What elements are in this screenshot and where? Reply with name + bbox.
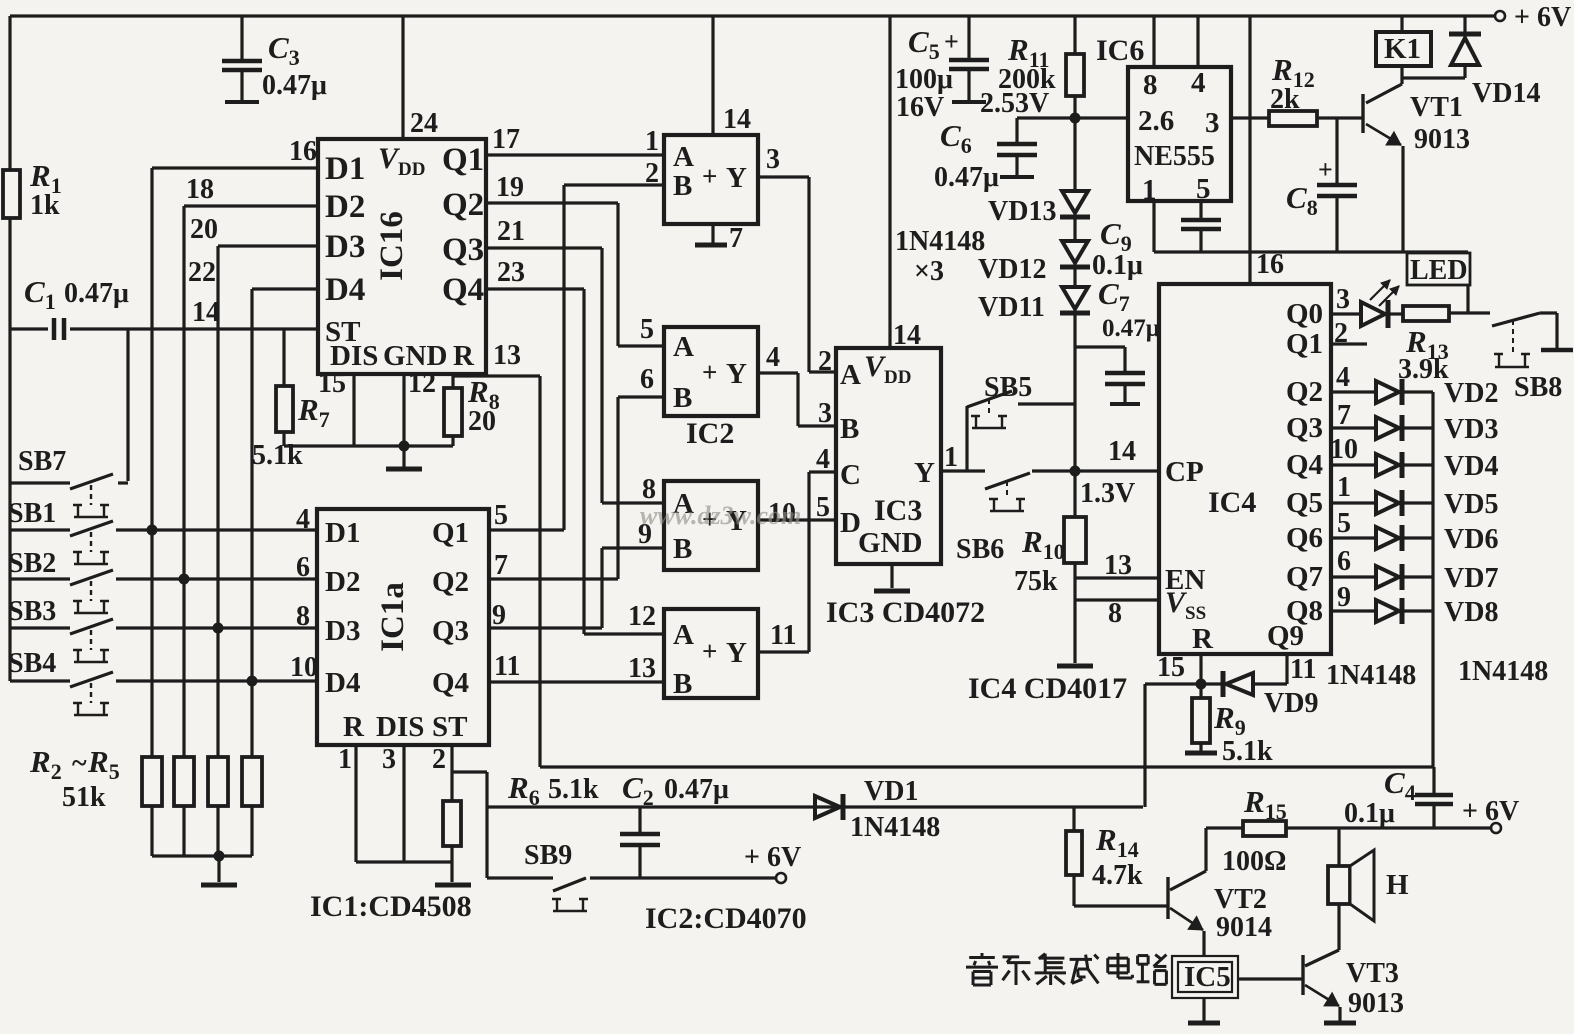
svg-text:1: 1 [944,442,958,473]
svg-text:B: B [673,382,692,414]
svg-text:3: 3 [382,744,396,775]
svg-text:Q4: Q4 [442,272,484,308]
svg-text:VT3: VT3 [1346,958,1399,989]
svg-text:6: 6 [1337,546,1351,577]
svg-text:0.1μ: 0.1μ [1344,798,1395,829]
svg-text:1.3V: 1.3V [1080,478,1135,509]
svg-text:Q1: Q1 [442,142,484,178]
svg-text:B: B [673,668,692,700]
svg-text:ST: ST [432,711,467,743]
svg-text:LED: LED [1410,255,1468,286]
svg-text:9: 9 [492,600,506,631]
svg-text:51k: 51k [62,782,106,813]
svg-text:SB9: SB9 [524,840,572,871]
svg-text:D4: D4 [325,272,365,308]
svg-text:5.1k: 5.1k [548,774,599,805]
svg-text:12: 12 [408,368,436,399]
svg-text:Y: Y [914,457,935,489]
svg-text:VT1: VT1 [1410,92,1463,123]
svg-text:6: 6 [296,552,310,583]
svg-text:1k: 1k [30,190,60,221]
svg-text:Q3: Q3 [432,615,469,647]
svg-text:16: 16 [1256,249,1284,280]
svg-text:0.47μ: 0.47μ [64,278,129,309]
svg-text:14: 14 [192,297,220,328]
svg-text:100μ: 100μ [895,64,953,95]
svg-text:D2: D2 [325,566,360,598]
svg-text:8: 8 [1143,69,1158,101]
svg-text:IC1:CD4508: IC1:CD4508 [310,890,472,923]
svg-text:0.47μ: 0.47μ [262,70,327,101]
svg-text:VD2: VD2 [1444,378,1498,409]
svg-text:VD7: VD7 [1444,563,1498,594]
svg-text:15: 15 [318,368,346,399]
svg-text:7: 7 [1337,400,1351,431]
svg-text:6: 6 [640,364,654,395]
svg-text:Y: Y [726,162,747,194]
svg-text:A: A [673,141,694,173]
svg-text:4.7k: 4.7k [1092,860,1143,891]
svg-text:11: 11 [1290,654,1316,685]
svg-text:3: 3 [1205,107,1220,139]
svg-text:VD4: VD4 [1444,451,1498,482]
svg-text:×3: ×3 [914,256,944,287]
svg-text:GND: GND [858,527,922,559]
svg-text:VD8: VD8 [1444,597,1498,628]
svg-text:D3: D3 [325,229,365,265]
svg-text:8: 8 [296,601,310,632]
svg-text:4: 4 [1191,67,1206,99]
svg-text:SB4: SB4 [8,648,56,679]
svg-text:Q1: Q1 [432,517,469,549]
svg-text:Y: Y [726,637,747,669]
svg-text:10: 10 [290,652,318,683]
svg-text:Q4: Q4 [1286,449,1323,481]
svg-text:B: B [840,413,859,445]
svg-text:A: A [673,331,694,363]
svg-text:4: 4 [296,504,310,535]
svg-text:23: 23 [497,257,525,288]
svg-text:VT2: VT2 [1214,884,1267,915]
svg-text:9: 9 [1337,582,1351,613]
svg-text:R: R [343,711,365,743]
svg-text:1N4148: 1N4148 [850,812,940,843]
svg-text:D1: D1 [325,517,360,549]
svg-text:0.47μ: 0.47μ [664,774,729,805]
svg-text:75k: 75k [1014,566,1058,597]
svg-text:1: 1 [645,126,659,157]
svg-text:+: + [944,27,959,56]
svg-text:13: 13 [493,340,521,371]
svg-text:~: ~ [72,748,87,779]
svg-text:+: + [702,357,717,387]
svg-text:Q1: Q1 [1286,328,1323,360]
svg-text:Q2: Q2 [432,566,469,598]
svg-text:SB8: SB8 [1514,372,1562,403]
svg-text:+: + [702,161,717,191]
svg-text:1: 1 [338,744,352,775]
svg-text:IC1a: IC1a [375,582,411,652]
svg-text:Q2: Q2 [442,187,484,223]
svg-text:12: 12 [628,601,656,632]
svg-text:VD6: VD6 [1444,524,1498,555]
svg-text:200k: 200k [998,64,1056,95]
svg-text:+: + [702,636,717,666]
svg-text:9013: 9013 [1414,124,1470,155]
svg-text:Q9: Q9 [1267,620,1304,652]
svg-text:10: 10 [1330,434,1358,465]
svg-text:1N4148: 1N4148 [1458,656,1548,687]
svg-text:B: B [673,533,692,565]
svg-text:21: 21 [497,216,525,247]
svg-text:CP: CP [1165,456,1204,488]
svg-text:3.9k: 3.9k [1398,354,1449,385]
svg-text:3: 3 [818,398,832,429]
svg-text:100Ω: 100Ω [1222,846,1286,877]
svg-text:D2: D2 [325,189,365,225]
svg-text:IC3 CD4072: IC3 CD4072 [826,596,985,629]
svg-text:VD5: VD5 [1444,489,1498,520]
svg-text:R: R [453,340,475,372]
svg-text:4: 4 [766,342,780,373]
svg-text:14: 14 [893,320,921,351]
svg-text:Q2: Q2 [1286,376,1323,408]
svg-text:11: 11 [770,620,796,651]
svg-text:SB1: SB1 [8,498,56,529]
svg-text:NE555: NE555 [1134,141,1215,172]
svg-text:Q7: Q7 [1286,561,1323,593]
svg-text:16V: 16V [896,92,944,123]
svg-text:VD3: VD3 [1444,414,1498,445]
svg-text:5: 5 [640,314,654,345]
svg-text:IC4: IC4 [1208,486,1256,519]
svg-text:13: 13 [628,653,656,684]
svg-text:2: 2 [645,158,659,189]
svg-text:Q0: Q0 [1286,298,1323,330]
svg-text:IC5: IC5 [1184,961,1231,993]
svg-text:13: 13 [1104,550,1132,581]
svg-text:24: 24 [410,108,438,139]
svg-text:15: 15 [1157,652,1185,683]
svg-text:IC2: IC2 [686,417,734,450]
svg-text:VD9: VD9 [1264,688,1318,719]
svg-text:2: 2 [818,346,832,377]
svg-text:R: R [1192,623,1214,655]
svg-text:SB6: SB6 [956,534,1004,565]
svg-text:1N4148: 1N4148 [895,226,985,257]
svg-text:SB5: SB5 [984,372,1032,403]
svg-text:11: 11 [494,651,520,682]
svg-text:IC3: IC3 [874,494,922,527]
svg-text:5: 5 [494,500,508,531]
svg-text:Q3: Q3 [442,232,484,268]
svg-text:VD1: VD1 [864,776,918,807]
svg-text:www.dz3w.com: www.dz3w.com [640,501,801,530]
svg-text:4: 4 [816,444,830,475]
svg-text:B: B [673,170,692,202]
svg-text:16: 16 [289,136,317,167]
svg-text:A: A [673,619,694,651]
svg-text:20: 20 [468,406,496,437]
svg-text:7: 7 [729,223,743,254]
svg-text:VD11: VD11 [978,292,1045,323]
svg-text:SB2: SB2 [8,548,56,579]
svg-text:Q3: Q3 [1286,412,1323,444]
svg-text:C: C [840,459,861,491]
svg-text:8: 8 [1108,598,1122,629]
svg-text:IC6: IC6 [1096,34,1144,67]
svg-text:2.6: 2.6 [1138,105,1174,137]
svg-text:IC4 CD4017: IC4 CD4017 [968,672,1127,705]
svg-text:14: 14 [723,104,751,135]
svg-text:D4: D4 [325,667,360,699]
svg-text:0.47μ: 0.47μ [934,162,999,193]
svg-text:Q4: Q4 [432,667,469,699]
svg-text:3: 3 [766,144,780,175]
svg-text:+ 6V: + 6V [1514,2,1571,33]
svg-text:7: 7 [494,550,508,581]
svg-text:5.1k: 5.1k [1222,736,1273,767]
svg-text:IC2:CD4070: IC2:CD4070 [645,902,807,935]
svg-text:Q6: Q6 [1286,522,1323,554]
svg-text:VD13: VD13 [988,196,1056,227]
svg-text:D3: D3 [325,615,360,647]
svg-text:H: H [1386,869,1409,901]
svg-text:22: 22 [188,257,216,288]
svg-text:0.47μ: 0.47μ [1102,315,1160,342]
svg-text:9013: 9013 [1348,988,1404,1019]
svg-text:1: 1 [1337,472,1351,503]
svg-text:5: 5 [1337,508,1351,539]
svg-text:17: 17 [492,124,520,155]
svg-text:K1: K1 [1384,33,1421,65]
svg-text:9014: 9014 [1216,912,1272,943]
svg-text:18: 18 [186,174,214,205]
svg-text:19: 19 [496,172,524,203]
svg-text:D1: D1 [325,151,365,187]
svg-text:+ 6V: + 6V [744,842,801,873]
svg-text:SB3: SB3 [8,596,56,627]
svg-text:A: A [840,359,861,391]
svg-text:Q5: Q5 [1286,487,1323,519]
svg-text:DIS: DIS [376,711,424,743]
svg-text:2k: 2k [1270,84,1300,115]
svg-text:14: 14 [1108,436,1136,467]
svg-text:2: 2 [432,744,446,775]
svg-text:+: + [1318,155,1333,184]
svg-text:VD12: VD12 [978,254,1046,285]
svg-text:SB7: SB7 [18,446,66,477]
svg-text:3: 3 [1336,284,1350,315]
svg-text:5: 5 [1196,173,1211,205]
svg-text:1N4148: 1N4148 [1326,660,1416,691]
svg-text:IC16: IC16 [374,211,410,281]
svg-text:5: 5 [816,492,830,523]
svg-text:Y: Y [726,358,747,390]
svg-text:4: 4 [1336,362,1350,393]
svg-text:VD14: VD14 [1472,78,1540,109]
svg-text:+ 6V: + 6V [1462,796,1519,827]
svg-text:20: 20 [190,214,218,245]
